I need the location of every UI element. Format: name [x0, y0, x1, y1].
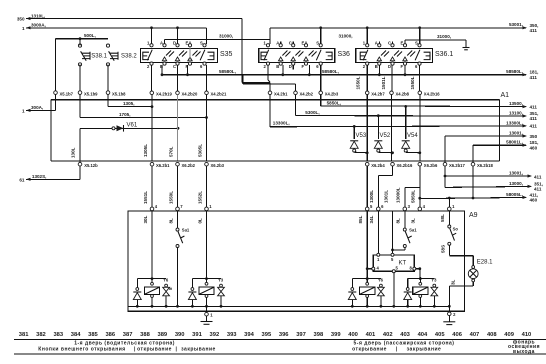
wire S36.1-6 to X4.2b16: [419, 65, 421, 91]
svg-text:X5.1b7: X5.1b7: [60, 92, 74, 97]
svg-text:393: 393: [227, 332, 237, 338]
wire S35 pin A up-stub: [164, 39, 166, 44]
svg-text:X4.2b2: X4.2b2: [300, 91, 314, 96]
jog left to pin3: [405, 186, 420, 188]
arrow 13001 to 350: [523, 134, 528, 137]
wire X6.2b2 to A9: [177, 166, 179, 209]
junction V54: [404, 105, 407, 108]
wire S35-2 to X4.2b19: [151, 65, 153, 91]
junction relay3 top: [366, 277, 369, 280]
wire S36 pin S up-stub: [320, 28, 322, 44]
svg-text:1310L,: 1310L,: [31, 13, 45, 18]
rail / connector X6.2 line: [51, 160, 499, 162]
pin X6.2b2: [176, 162, 180, 166]
wire S36.1 pinE up-stub: [404, 40, 406, 44]
pin X4.2b16: [418, 91, 422, 95]
svg-text:411: 411: [530, 104, 538, 109]
svg-text:3000A,: 3000A,: [31, 22, 46, 27]
svg-text:1300L: 1300L: [369, 190, 374, 203]
wire A9 pin6 to KT: [377, 211, 379, 254]
svg-text:закрывание: закрывание: [181, 346, 216, 352]
pin X6.2b6: [418, 162, 422, 166]
svg-text:34L: 34L: [369, 215, 374, 223]
svg-text:382: 382: [36, 332, 46, 338]
ground pin 2: [448, 312, 452, 316]
wire S35 pin 1 up-stub: [151, 28, 153, 44]
svg-text:389: 389: [157, 332, 167, 338]
wire S35 pin S up-stub: [206, 28, 208, 44]
svg-text:A: A: [276, 41, 279, 46]
S35 pinF stub: [187, 65, 189, 75]
pin X6.2b16: [391, 162, 395, 166]
svg-text:399: 399: [331, 332, 341, 338]
Sa1 mid blade: [405, 232, 410, 244]
arrow net 350 from track 350: [26, 17, 31, 20]
wire KT5b to rail2: [393, 273, 395, 307]
svg-text:закрывание: закрывание: [407, 346, 442, 352]
wire X4.2b2 down: [295, 95, 297, 116]
svg-text:411: 411: [534, 187, 542, 192]
svg-text:E: E: [186, 41, 189, 46]
svg-text:385: 385: [88, 332, 98, 338]
pin X6.2b17: [443, 162, 447, 166]
S36 pinC stub up: [292, 42, 294, 44]
svg-text:404: 404: [418, 332, 428, 338]
relay coil at x=420.3: [419, 277, 422, 280]
wire V53 to col: [354, 151, 367, 154]
control unit A9 box: [128, 211, 464, 311]
svg-text:395: 395: [262, 332, 272, 338]
svg-text:394: 394: [244, 332, 254, 338]
diode at x=407.7: [406, 288, 409, 291]
pin X4.2b8: [390, 91, 394, 95]
wire X6.2b16 down: [392, 166, 394, 176]
terminal V61 left: [112, 127, 115, 130]
junction L6 start: [418, 197, 421, 200]
svg-text:1551L: 1551L: [143, 191, 148, 204]
wire A1 riser: [498, 100, 500, 161]
ground riser: [465, 40, 467, 48]
pin X4.2b19: [150, 91, 154, 95]
svg-text:460: 460: [530, 145, 538, 150]
junction 1705/X4.2b21 col: [205, 116, 208, 119]
wire lamp return down: [448, 286, 450, 306]
pin X5.1b8: [106, 91, 110, 95]
S38.1 blade: [81, 51, 87, 60]
KT pin 1: [377, 253, 380, 256]
S38.2 blade: [109, 51, 115, 60]
wire 5300/13100: [296, 115, 527, 117]
wire Sa1 down to rail2: [177, 248, 179, 307]
svg-text:13100,: 13100,: [509, 110, 523, 115]
wire X4.2b20 col down grey: [177, 95, 179, 161]
svg-text:8L: 8L: [168, 218, 173, 224]
pin X4.2b2: [294, 91, 298, 95]
junction So col: [448, 197, 451, 200]
svg-text:300A,: 300A,: [31, 105, 43, 110]
arrow 13100 to 351/411: [523, 114, 528, 117]
wire A9 pin7 to Sa1: [177, 211, 179, 228]
svg-text:E: E: [302, 41, 305, 46]
relay coil at x=152: [151, 277, 154, 280]
svg-text:Кнопки внешнего открывания: Кнопки внешнего открывания: [38, 346, 125, 352]
Sa1 blade: [178, 232, 183, 244]
svg-text:B: B: [276, 64, 279, 69]
push-button S38.1: [78, 44, 81, 47]
wire 58580 tap horizontal: [243, 83, 296, 85]
svg-text:X6.2b3: X6.2b3: [211, 163, 225, 168]
svg-text:460: 460: [530, 198, 538, 203]
wire X6.2b3 to A9: [206, 166, 208, 209]
svg-text:S: S: [200, 41, 203, 46]
svg-text:S: S: [316, 41, 319, 46]
svg-text:130L: 130L: [71, 147, 76, 158]
ground pin 1: [205, 312, 209, 316]
svg-text:KT: KT: [399, 261, 407, 267]
svg-text:A1: A1: [501, 92, 510, 99]
wire S36.1-2 to X4.2b7: [366, 65, 368, 91]
svg-text:411: 411: [530, 116, 538, 121]
wire to A9 pin6: [377, 175, 379, 209]
diode V54: [405, 106, 407, 139]
A9 pin 1: [205, 207, 209, 211]
diode V53: [353, 126, 355, 139]
svg-text:So: So: [453, 226, 459, 231]
svg-text:383: 383: [53, 332, 63, 338]
svg-text:A: A: [375, 41, 378, 46]
A9 pin 1: [448, 207, 452, 211]
svg-text:13001,: 13001,: [509, 170, 523, 175]
wire X6.2b1 to A9: [151, 166, 153, 209]
A9 pin 3: [403, 207, 407, 211]
A9 pin 6: [377, 207, 381, 211]
wire down to X6.2b17: [444, 136, 446, 163]
diode V61: [117, 125, 124, 131]
svg-text:58L: 58L: [440, 214, 445, 222]
pin X4.2b20: [176, 91, 180, 95]
svg-text:384: 384: [71, 332, 81, 338]
svg-text:Y3: Y3: [218, 278, 224, 283]
svg-text:X6.2b6: X6.2b6: [424, 163, 438, 168]
svg-text:411: 411: [534, 174, 542, 179]
svg-text:A9: A9: [469, 212, 478, 219]
switch S35: [141, 41, 218, 69]
svg-text:13300L,: 13300L,: [273, 121, 290, 126]
svg-text:V54: V54: [407, 133, 418, 139]
wire to A9 pin3: [404, 187, 406, 209]
wire A9 pin5 down: [366, 211, 368, 279]
svg-text:X5.12b: X5.12b: [84, 163, 98, 168]
pin X5.1b7: [54, 91, 58, 95]
svg-text:выхода: выхода: [513, 349, 535, 355]
wire X4.2b8 col down: [391, 95, 393, 161]
junction lamp return: [448, 305, 451, 308]
wire 58005 to 411/460: [420, 197, 526, 198]
pin X5.1b9: [78, 91, 82, 95]
svg-text:13001,: 13001,: [509, 130, 523, 135]
svg-text:X6.2b4: X6.2b4: [371, 163, 385, 168]
svg-text:8L: 8L: [396, 218, 401, 224]
svg-text:открывание: открывание: [137, 346, 172, 352]
svg-text:D: D: [388, 64, 391, 69]
arrow net 1: [26, 26, 31, 29]
svg-text:408: 408: [487, 332, 497, 338]
arrow 13000: [528, 185, 533, 188]
arrow 58001: [523, 144, 528, 147]
wire X6.2b6 to A9 pin4: [419, 166, 421, 209]
wire X5.12b down: [79, 166, 81, 180]
junction V52: [377, 114, 380, 117]
ground bar: [463, 47, 470, 49]
junction S36 pinS: [319, 26, 322, 29]
svg-text:A: A: [160, 41, 163, 46]
svg-text:открывание: открывание: [352, 346, 387, 352]
svg-text:X4.2b1: X4.2b1: [274, 91, 288, 96]
svg-text:1552L: 1552L: [197, 191, 202, 204]
KT pin 5: [391, 253, 394, 256]
svg-text:391: 391: [192, 332, 202, 338]
svg-text:X4.2b19: X4.2b19: [156, 91, 173, 96]
svg-text:398: 398: [314, 332, 324, 338]
svg-text:85L: 85L: [358, 215, 363, 223]
svg-text:396: 396: [279, 332, 289, 338]
wire to ground 2: [448, 306, 450, 312]
ground 1 bar: [201, 321, 213, 323]
svg-text:500L,: 500L,: [84, 33, 96, 38]
svg-text:401: 401: [366, 332, 376, 338]
pin X4.2b3: [319, 91, 323, 95]
S36 pinA stub up: [280, 42, 282, 44]
jog left: [378, 174, 392, 176]
svg-text:X4.2b21: X4.2b21: [211, 91, 228, 96]
wire S36-2 down: [267, 65, 269, 80]
svg-text:397: 397: [296, 332, 306, 338]
pin X4.2b21: [205, 91, 209, 95]
svg-text:350: 350: [530, 134, 538, 139]
pin X5.12b: [78, 162, 82, 166]
wire lamp bottom: [472, 282, 474, 286]
svg-text:392: 392: [210, 332, 220, 338]
svg-text:S36: S36: [338, 51, 351, 58]
svg-text:31000,: 31000,: [219, 34, 233, 39]
svg-text:Sa1: Sa1: [182, 228, 190, 233]
svg-text:409: 409: [504, 332, 514, 338]
wire loop jog: [51, 99, 56, 101]
svg-text:X4.2b3: X4.2b3: [325, 91, 339, 96]
junction net1 / S35 pinD: [176, 26, 179, 29]
wire 13300: [270, 125, 526, 128]
wire X5.1b7 down: [55, 94, 57, 110]
junction S36.1 pinS: [418, 26, 421, 29]
svg-text:X5.1b8: X5.1b8: [112, 92, 126, 97]
svg-text:V61: V61: [127, 122, 138, 128]
svg-text:386: 386: [105, 332, 115, 338]
svg-text:53001,: 53001,: [509, 22, 523, 27]
ground 2 bar: [443, 321, 455, 323]
svg-text:5850L,: 5850L,: [327, 100, 341, 105]
svg-text:3L: 3L: [451, 279, 456, 285]
svg-text:411: 411: [530, 28, 538, 33]
arrow 58005: [523, 196, 528, 199]
svg-text:1305L: 1305L: [143, 144, 148, 157]
time relay KT box: [373, 255, 414, 271]
S36 pinB stub: [282, 65, 284, 75]
wire X4.2b21 col down: [206, 95, 208, 161]
wire X4.2b3 down: [320, 95, 322, 106]
wire S36.1-D to X4.2b8: [391, 65, 393, 91]
A9 pin 4: [150, 207, 154, 211]
S35 pinE stub up: [189, 42, 191, 44]
svg-text:381: 381: [19, 332, 29, 338]
wire S35-C to X4.2b20: [177, 65, 179, 91]
wire V54 to col: [406, 151, 420, 154]
svg-text:D: D: [173, 41, 176, 46]
wire net 350 vertical drop: [241, 19, 243, 83]
wire net 350 jog to X4.2b1: [242, 82, 270, 84]
diode V52: [377, 116, 379, 139]
wire down to X6.2b18: [472, 145, 474, 162]
svg-text:Y3: Y3: [431, 278, 437, 283]
arrow to track 350/411: [523, 26, 528, 29]
pin X6.2b1: [150, 162, 154, 166]
svg-text:|: |: [176, 346, 178, 352]
svg-text:X6.2b16: X6.2b16: [397, 163, 414, 168]
svg-text:S38.2: S38.2: [121, 54, 137, 60]
A9 pin 7: [176, 207, 180, 211]
wire So to lamp: [449, 255, 473, 257]
svg-text:C: C: [388, 41, 391, 46]
A9 pin 4: [418, 207, 422, 211]
wire 1305: [108, 106, 152, 108]
wire net 350 top horizontal: [26, 18, 242, 20]
S36 pinD stub: [292, 65, 294, 69]
S36.1 pinA stub up: [378, 42, 380, 44]
arrow net 1 mid: [26, 109, 31, 112]
wire S35-6 to X4.2b21: [206, 65, 208, 91]
svg-text:0L: 0L: [197, 218, 202, 224]
junction L9: [444, 175, 447, 178]
svg-text:X6.2b1: X6.2b1: [156, 163, 170, 168]
wire X4.2b19 col down: [151, 95, 153, 161]
col to relay4: [419, 269, 422, 279]
wire X4.2b1 down: [269, 95, 271, 127]
pin X6.2b3: [205, 162, 209, 166]
svg-text:387: 387: [123, 332, 133, 338]
caption bottom line: [14, 353, 546, 355]
svg-text:13300L,: 13300L,: [506, 120, 523, 125]
junction S38.1 top: [79, 37, 82, 40]
svg-text:X6.2b2: X6.2b2: [182, 163, 196, 168]
wire 53001 top-right horizontal: [270, 27, 526, 29]
wire X6.2b4 to A9 pin5: [366, 166, 368, 209]
wire X5.1b9 down: [79, 94, 81, 117]
svg-text:58005L,: 58005L,: [506, 192, 523, 197]
svg-text:570L: 570L: [168, 146, 173, 157]
svg-text:|: |: [396, 346, 398, 352]
svg-text:D: D: [289, 64, 292, 69]
svg-text:31000,: 31000,: [339, 34, 353, 39]
wire to ground 1: [206, 306, 208, 312]
wire A9 pin3 to Sa1 mid: [404, 211, 406, 228]
svg-text:31000,: 31000,: [437, 34, 451, 39]
svg-text:V52: V52: [380, 133, 391, 139]
junction S36.1 pin1: [366, 26, 369, 29]
wire 31000 between S35-A and S36-1: [165, 38, 270, 40]
svg-text:1301L: 1301L: [383, 190, 388, 203]
wire S36.1 pin1 up-stub: [366, 28, 368, 44]
svg-text:405: 405: [435, 332, 445, 338]
switch S36.1: [356, 41, 433, 69]
diode at x=137.3: [136, 288, 139, 291]
KT pin 8: [413, 267, 416, 270]
KT pin 5b: [392, 270, 395, 273]
wire common loop top L0: [56, 99, 500, 101]
wire 5850/13500: [321, 105, 526, 108]
svg-text:3L: 3L: [411, 218, 416, 224]
svg-text:1: 1: [22, 26, 25, 31]
svg-text:1302S,: 1302S,: [32, 174, 47, 179]
svg-text:58580L,: 58580L,: [506, 69, 523, 74]
wire 58580 tap down: [242, 75, 244, 84]
wire to net1 arrow: [26, 109, 56, 111]
svg-text:X4.2b7: X4.2b7: [371, 91, 385, 96]
wire S36 pin1 up-stub: [269, 28, 271, 44]
svg-text:E28.1: E28.1: [477, 259, 493, 265]
svg-text:Y6: Y6: [163, 278, 169, 283]
svg-text:8: 8: [168, 287, 173, 290]
junction V61/X4.2b20 col: [177, 127, 180, 130]
svg-text:13500,: 13500,: [509, 101, 523, 106]
svg-text:X4.2b16: X4.2b16: [424, 91, 441, 96]
svg-text:5850L: 5850L: [411, 190, 416, 203]
wire 13001 to 411: [445, 175, 531, 177]
pin X4.2b1: [268, 91, 272, 95]
svg-text:5300L,: 5300L,: [305, 110, 319, 115]
svg-text:30L: 30L: [143, 215, 148, 223]
svg-text:1550L: 1550L: [356, 76, 361, 89]
svg-text:X4.2b8: X4.2b8: [396, 91, 410, 96]
wire lamp return left: [449, 285, 473, 287]
wire So col to L6: [448, 198, 450, 209]
svg-text:58580L,: 58580L,: [219, 69, 236, 74]
wire KT4 to col: [367, 268, 372, 270]
S36.1 pinC stub up: [392, 42, 394, 44]
svg-text:58001L,: 58001L,: [506, 140, 523, 145]
wire 13001 to 350: [445, 135, 526, 137]
pin X4.2b7: [365, 91, 369, 95]
wire S36-6 to X4.2b3: [320, 65, 322, 91]
svg-text:V53: V53: [356, 133, 367, 139]
svg-text:1: 1: [22, 108, 25, 113]
svg-text:S35: S35: [220, 51, 233, 58]
svg-text:B: B: [375, 64, 378, 69]
relay coil at x=367.2: [366, 277, 369, 280]
S35 grey internal col: [189, 47, 191, 62]
ruler line: [14, 338, 546, 340]
svg-text:S36.1: S36.1: [435, 51, 453, 58]
wire 58001 to 181/460: [473, 144, 526, 146]
svg-text:350: 350: [17, 17, 25, 22]
junction V53: [353, 125, 356, 128]
svg-text:X6.2b17: X6.2b17: [449, 163, 466, 168]
S36.1 pinB stub to 58580: [378, 65, 380, 75]
svg-text:58S: 58S: [441, 245, 446, 253]
wire So down: [448, 245, 450, 255]
wire 31000 to ground: [405, 39, 466, 41]
wire to X4.2b2: [295, 84, 297, 91]
switch S38 feed rail: [56, 38, 109, 40]
wire X6.2b18 down to L6: [472, 166, 474, 198]
